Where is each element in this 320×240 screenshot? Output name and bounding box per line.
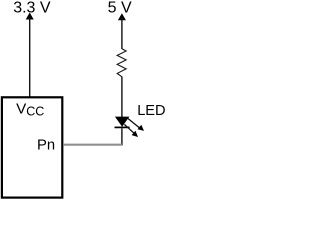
power arrow 5 V <box>118 13 126 20</box>
resistor R1 <box>117 49 126 77</box>
svg-text:LED: LED <box>137 103 165 119</box>
wire resistor to LED anode <box>121 77 123 118</box>
svg-text:Pn: Pn <box>37 137 55 153</box>
power arrow 3.3 V <box>26 13 34 20</box>
wire 3.3V supply to VCC pin <box>29 17 31 97</box>
wire Pn to LED (gray) <box>63 144 122 146</box>
wire 5V supply to resistor <box>121 18 123 49</box>
LED D1 anode triangle <box>115 117 129 127</box>
LED emission arrow 1 <box>128 118 144 130</box>
wire LED cathode down <box>121 128 123 145</box>
IC box U1 <box>2 97 62 197</box>
svg-text:3.3 V: 3.3 V <box>13 0 51 17</box>
LED cathode bar <box>115 126 130 128</box>
svg-text:5 V: 5 V <box>108 0 132 17</box>
LED emission arrow 2 <box>124 124 138 137</box>
